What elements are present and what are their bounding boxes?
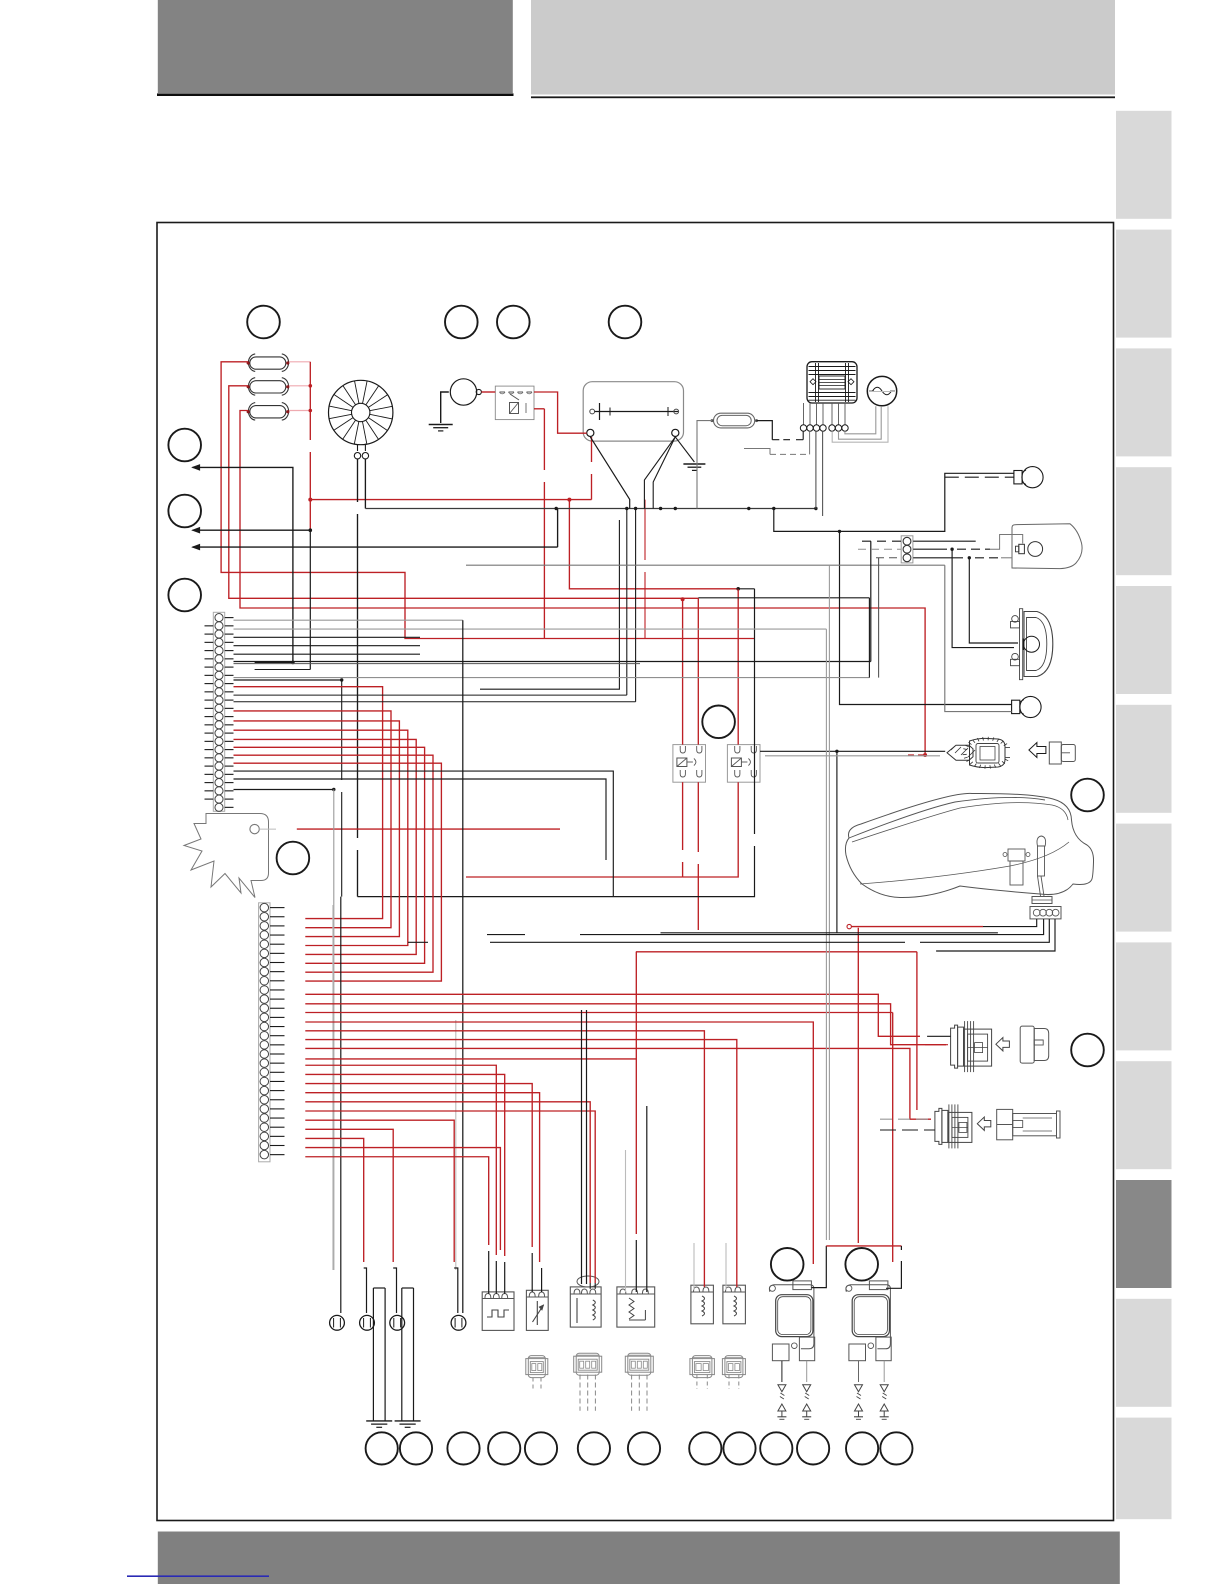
wire front turn signal	[774, 473, 1014, 531]
wire arrow line y467 to strip	[193, 465, 200, 470]
pickup / pulse generator	[482, 1292, 514, 1331]
header light gray box	[531, 0, 1115, 95]
wire stubs red->black at components	[488, 1251, 490, 1294]
wire red x636 down to resistor box	[635, 952, 637, 1234]
voltage regulator rectifier	[807, 362, 857, 403]
wire headlight row 3	[234, 677, 870, 679]
wire sensor B gray	[880, 1118, 935, 1120]
wire gray feeds coil boxes	[693, 1243, 695, 1290]
ground terminal rings	[330, 1315, 345, 1330]
AC gen crossing line	[869, 391, 895, 393]
wire black x310 down	[309, 530, 311, 669]
connector strip X1 (24-way)	[213, 612, 224, 811]
sensor connector B (socket)	[997, 1109, 1013, 1139]
wire gray x332.9	[332, 905, 334, 1270]
header light box underline	[531, 96, 1115, 98]
right side tab column	[1116, 111, 1172, 219]
tail light unit	[1020, 609, 1023, 680]
wire tail light feeds	[952, 549, 1014, 647]
ground lead pair 2	[401, 1288, 403, 1421]
footer blue link line	[127, 1575, 269, 1577]
arrow B	[977, 1117, 991, 1130]
ignition key switch	[947, 745, 973, 760]
wire long vertical x340	[340, 897, 342, 1313]
strip X2 red distribution rows	[305, 994, 920, 1036]
wire black x646 down	[646, 1106, 648, 1292]
callout circle	[277, 842, 310, 875]
spark plug gap symbol	[883, 1361, 885, 1382]
headlight internal wiring	[990, 535, 1023, 550]
solenoid coil box B	[723, 1285, 746, 1324]
wire fuse F1 feed	[221, 362, 754, 639]
callout circle bottom row	[723, 1432, 755, 1464]
header dark gray box	[158, 0, 513, 93]
callout circle	[1071, 1034, 1104, 1067]
generator (flywheel alternator)	[329, 380, 393, 444]
wire ignition coil 2 feed	[857, 928, 859, 1243]
fuel pump assembly	[1008, 849, 1025, 861]
wire rear turn signal top	[840, 531, 1012, 704]
wire generator lead 1	[357, 459, 359, 502]
callout circle bottom row	[366, 1432, 398, 1464]
wire fuse outputs common	[289, 361, 310, 363]
sub connector 2	[574, 1356, 602, 1372]
ignition switch connector	[1049, 742, 1061, 764]
fuse F2	[248, 378, 255, 396]
wire arrow line y547	[193, 545, 200, 550]
battery	[583, 382, 683, 441]
callout circle	[247, 306, 280, 339]
spark plug gap symbol	[781, 1361, 783, 1382]
wire regulator pins to bus	[815, 431, 817, 508]
callout circle bottom row	[488, 1432, 520, 1464]
ground (battery)	[683, 463, 705, 465]
front turn signal bulb	[1014, 471, 1022, 484]
main diagram border	[157, 223, 1114, 1521]
wire oval connector left	[697, 421, 712, 509]
callout circle bottom row	[525, 1432, 557, 1464]
ignition coil 1	[769, 1285, 814, 1349]
AC generator (charging) symbol	[867, 376, 896, 405]
tail light bolt bottom	[1011, 659, 1020, 665]
callout circle	[497, 306, 530, 339]
strip X1 black long rows	[234, 694, 627, 696]
wire battery positive drop	[569, 500, 738, 589]
callout circle bottom row	[400, 1432, 432, 1464]
callout circle	[1071, 779, 1104, 812]
header dark box underline	[157, 93, 514, 96]
sub connector 3	[625, 1356, 653, 1372]
wire red bus x645	[644, 500, 646, 560]
ground lead pair 1	[372, 1288, 374, 1421]
callout circle	[168, 495, 201, 528]
wire headlight row 2	[234, 663, 641, 665]
wire starter motor to relay	[481, 391, 495, 393]
starter motor M	[450, 379, 476, 405]
wire fuel pump red	[847, 924, 851, 928]
wire ignition switch black	[760, 750, 945, 752]
wire gray x625 down	[625, 1150, 627, 1292]
ground (starter motor)	[429, 424, 453, 426]
sensor connector A (plug)	[951, 1025, 958, 1068]
wire ignition red stub	[908, 754, 925, 756]
fuel tank	[845, 793, 1093, 897]
arrow A	[996, 1038, 1010, 1051]
wire main ground bus y508.5	[365, 508, 816, 510]
wire red row y951.8	[636, 951, 917, 953]
starter motor terminal	[476, 389, 481, 394]
regulator connector pins	[803, 403, 805, 425]
wire relay2 black down	[738, 588, 754, 590]
callout circle	[845, 1248, 878, 1281]
connector strip X2 (28-way)	[259, 903, 270, 1162]
strip X1 wire rows	[234, 619, 463, 621]
wire junction down from ignition feed	[836, 751, 838, 933]
strip X2 mid red rows down to bottom devices	[305, 1065, 496, 1255]
wire relay out down	[534, 408, 544, 410]
resistor box (fan/loads)	[617, 1287, 655, 1327]
callout circle bottom row	[578, 1432, 610, 1464]
wire battery minus diagonal	[590, 437, 629, 509]
callout circle bottom row	[447, 1432, 479, 1464]
solenoid coil box A	[691, 1285, 714, 1324]
wire gray x333 down	[333, 790, 335, 1271]
relay R2	[727, 745, 760, 783]
connector (oval 2-pin)	[714, 413, 755, 428]
callout circle bottom row	[846, 1432, 878, 1464]
spark plug gap symbol	[858, 1361, 860, 1382]
wire relay R2 feed	[737, 589, 739, 745]
sub connector 5	[722, 1359, 745, 1375]
wire red main to sensors (vertical x892.7)	[892, 1013, 894, 1263]
callout circle	[609, 306, 642, 339]
wire relay R1 coil	[681, 597, 685, 601]
wire sensor A black	[927, 1035, 951, 1037]
wire rear turn signal bottom	[466, 564, 945, 566]
wire bracket red	[297, 828, 560, 830]
wire battery right post fan	[644, 437, 675, 509]
wire relay R1 out	[697, 598, 699, 744]
callout circle	[168, 429, 201, 462]
bracket hole	[250, 824, 259, 833]
ground (engine) 2	[395, 1420, 421, 1422]
ignition coil 2	[846, 1285, 891, 1349]
wire generator lead 2	[364, 459, 366, 509]
wire AC gen leads	[845, 406, 876, 434]
callout circle	[702, 706, 735, 739]
wire fuel pump black rows	[661, 932, 998, 934]
wire red link coils	[826, 1245, 901, 1247]
callout circle	[168, 579, 201, 612]
rear turn signal bulb	[1012, 700, 1020, 713]
headlight shell	[1012, 524, 1082, 569]
wire ignition switch gray	[765, 755, 940, 757]
arrow (ignition connector)	[1029, 743, 1046, 758]
strip X1 red rows + staircase to X2	[234, 687, 383, 919]
headlight bulb	[1019, 544, 1025, 553]
ground (engine) 1	[366, 1420, 392, 1422]
wire sensor A red dash	[925, 1044, 948, 1046]
fuse F1	[248, 354, 255, 372]
instrument bracket (torn plate) symbol	[184, 814, 269, 898]
sensor connector A (socket)	[1020, 1026, 1034, 1063]
wire long vertical x462.8	[462, 620, 464, 1313]
wire fuse F2 feed	[229, 386, 699, 599]
fuse F3	[248, 403, 255, 421]
wire oval connector right to regulator	[757, 421, 773, 440]
starter motor ground wire	[441, 392, 449, 423]
sub connector 4	[690, 1359, 715, 1375]
wire sensor B black	[880, 1129, 935, 1131]
wire red y877 lead-in	[466, 876, 683, 878]
callout circle bottom row	[689, 1432, 721, 1464]
wire black y597.8 to connector	[698, 597, 869, 599]
wire headlight pins right	[913, 540, 976, 542]
wire headlight row 1	[234, 661, 871, 663]
callout circle	[771, 1248, 804, 1281]
tail light bolt top	[1011, 622, 1020, 628]
relay R1	[673, 745, 706, 783]
wire regulator aux dash	[744, 449, 770, 455]
wire gray pair down right side	[825, 629, 827, 1240]
callout circle bottom row	[628, 1432, 660, 1464]
starter solenoid relay	[495, 386, 534, 420]
sub connector 1	[526, 1359, 548, 1375]
wire gray x455.8	[455, 1020, 457, 1270]
wire red x916.9 down to sensor B	[916, 952, 918, 1110]
coolant temp sensor (thermistor)	[526, 1290, 548, 1330]
headlight connector 3-pin	[901, 536, 913, 563]
wire coil box A pair	[581, 1010, 583, 1284]
injector coil box 1	[570, 1287, 601, 1327]
wire ignition coil 1 feed	[812, 1246, 827, 1288]
tail light bulb	[1024, 636, 1040, 652]
callout circle	[445, 306, 478, 339]
callout circle bottom row	[880, 1432, 912, 1464]
wire bus drops to rows	[626, 509, 628, 696]
wire fuse F3 feed	[240, 411, 925, 754]
fuel tank connector 4-pin	[1030, 907, 1061, 919]
sensor connector B (plug)	[935, 1108, 942, 1144]
wire battery left post down	[591, 437, 593, 462]
wire arrow line y530	[193, 528, 200, 533]
footer gray bar	[158, 1532, 1120, 1584]
spark plug gap symbol	[806, 1361, 808, 1382]
callout circle bottom row	[797, 1432, 829, 1464]
callout circle bottom row	[760, 1432, 792, 1464]
wire starter relay to battery	[534, 392, 587, 433]
